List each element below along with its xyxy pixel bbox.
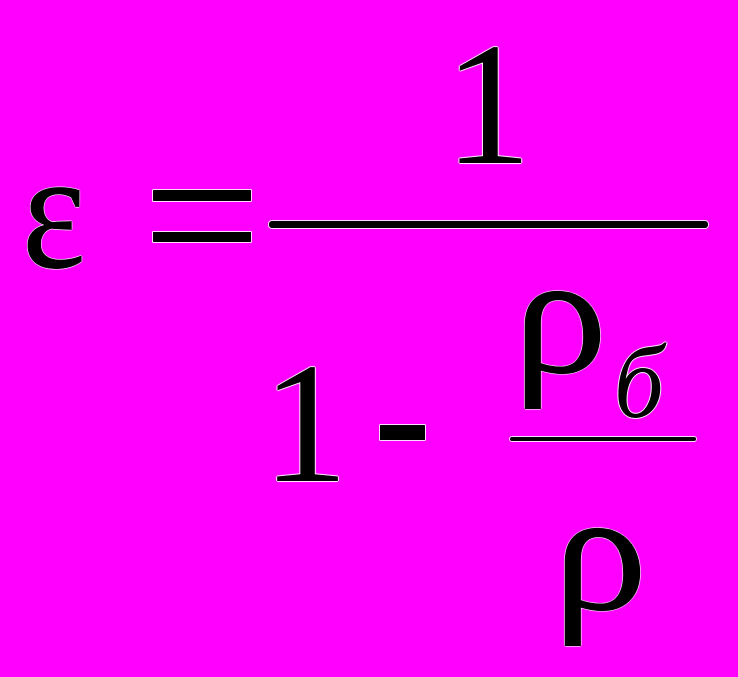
- equals sign top bar: [153, 190, 251, 201]
- main fraction bar: [269, 221, 708, 228]
- rho_b numerator (bulk density): [513, 314, 607, 316]
- sub-fraction bar: [510, 437, 696, 441]
- numerator digit 1: [444, 103, 532, 105]
- denominator digit 1: [262, 423, 348, 425]
- subscript b (Cyrillic be): [614, 382, 664, 384]
- minus sign: [380, 425, 425, 440]
- rho denominator (true density): [553, 551, 647, 553]
- equals sign bottom bar: [153, 232, 251, 242]
- symbol epsilon (porosity): [22, 210, 86, 212]
